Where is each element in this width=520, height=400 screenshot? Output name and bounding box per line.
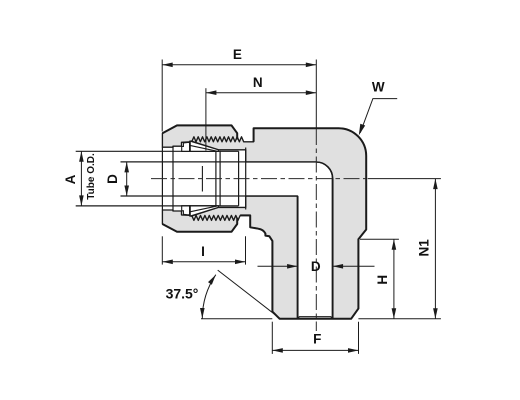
angle arc arrowheads <box>208 275 216 285</box>
dimension A line <box>80 151 82 206</box>
dimension E extension line (right, port centerline) <box>315 60 317 129</box>
W leader line <box>360 99 397 133</box>
front ferrule back face edge (bottom) <box>189 206 191 216</box>
dimension A arrows <box>79 151 84 162</box>
svg-text:F: F <box>313 332 321 347</box>
dimension F line <box>272 349 358 351</box>
back ferrule (top) <box>182 142 191 151</box>
back ferrule (bottom) <box>182 206 191 215</box>
dimension N arrows <box>206 90 217 95</box>
svg-text:H: H <box>375 275 390 285</box>
svg-text:Tube O.D.: Tube O.D. <box>86 153 97 200</box>
dimension E arrows <box>162 63 173 68</box>
tube end face <box>238 151 240 206</box>
ferrule tip contact edge <box>215 151 217 206</box>
nut front face bore edge <box>161 147 163 210</box>
front ferrule back face edge (top) <box>189 141 191 151</box>
front ferrule taper line (top) <box>190 145 218 151</box>
dimension D arrows <box>124 162 129 173</box>
port bore chamfer edge <box>298 317 333 319</box>
dimension I extension line (left) <box>161 236 163 264</box>
dimension H arrows <box>392 239 397 250</box>
svg-text:D: D <box>311 259 321 274</box>
dimension E line <box>162 64 316 66</box>
dimension F extension line (left) <box>271 322 273 354</box>
dimension D (port bore) line right <box>333 265 375 267</box>
dimension H line <box>393 239 395 319</box>
dimension F arrows <box>272 348 283 353</box>
elbow body: upper section (threads, top flat, outer corner, right wall of bottom port) <box>191 128 366 319</box>
dimension H extension line (top) <box>360 238 399 240</box>
nut internal shoulder edge <box>172 146 174 211</box>
port bore right edge (heavy) <box>332 179 334 319</box>
dimension D (tube bore) line <box>126 162 128 196</box>
bore inner corner arc <box>316 162 332 179</box>
vertical port centerline <box>315 129 317 331</box>
body cone back edge <box>201 166 203 192</box>
svg-text:W: W <box>372 79 385 94</box>
dimension N extension line (left) <box>205 88 207 150</box>
nut outer profile (top, heavy) <box>162 125 237 139</box>
svg-text:D: D <box>105 174 120 184</box>
horizontal centerline <box>151 178 366 180</box>
W leader arrowhead <box>359 124 365 136</box>
37.5 deg chamfer line extended <box>218 270 280 318</box>
svg-text:N: N <box>253 75 263 90</box>
nut (bottom half section) <box>162 210 237 232</box>
dimension N1 arrows <box>433 179 438 190</box>
front ferrule taper line (bottom) <box>190 206 218 212</box>
dimension E extension line (left, nut face) <box>161 60 163 132</box>
tube outer wall (top) <box>76 150 239 152</box>
port bore left edge (heavy) <box>297 196 299 319</box>
counterbore face edge <box>245 148 247 210</box>
nut outer profile (bottom, heavy) <box>162 218 237 232</box>
37.5 deg angle arc <box>202 275 216 319</box>
front ferrule (top) <box>190 141 219 151</box>
dimension I line <box>162 261 245 263</box>
body mouth edge <box>219 151 221 206</box>
front ferrule (bottom) <box>190 206 219 216</box>
svg-text:I: I <box>201 244 205 259</box>
dimension N line <box>206 92 316 94</box>
dimension N1 line <box>434 179 436 319</box>
dimension I arrows <box>162 260 173 265</box>
nut (top half section) <box>162 125 237 147</box>
angle baseline (left of port) <box>201 318 272 320</box>
elbow body: lower-left section (bottom threads, stepped shoulder, left wall of bottom port) <box>191 196 298 319</box>
svg-text:E: E <box>233 47 242 62</box>
dimension D (port) arrows <box>287 264 298 269</box>
tube bore / body bore (top) <box>121 161 317 163</box>
body outer profile (heavy) <box>240 128 366 319</box>
tube outer wall (bottom) <box>76 205 239 207</box>
dimension N1 extension line (top, centerline level) <box>368 178 441 180</box>
svg-text:N1: N1 <box>416 239 431 257</box>
bottom extension line (port end plane) <box>358 318 441 320</box>
tube bore / body bore (bottom) <box>121 195 298 197</box>
dimension F extension line (right) <box>358 322 360 354</box>
svg-text:37.5°: 37.5° <box>166 285 199 301</box>
dimension I extension line (right) <box>245 236 247 264</box>
svg-text:A: A <box>63 174 78 184</box>
dimension D (port bore) line left <box>258 265 298 267</box>
